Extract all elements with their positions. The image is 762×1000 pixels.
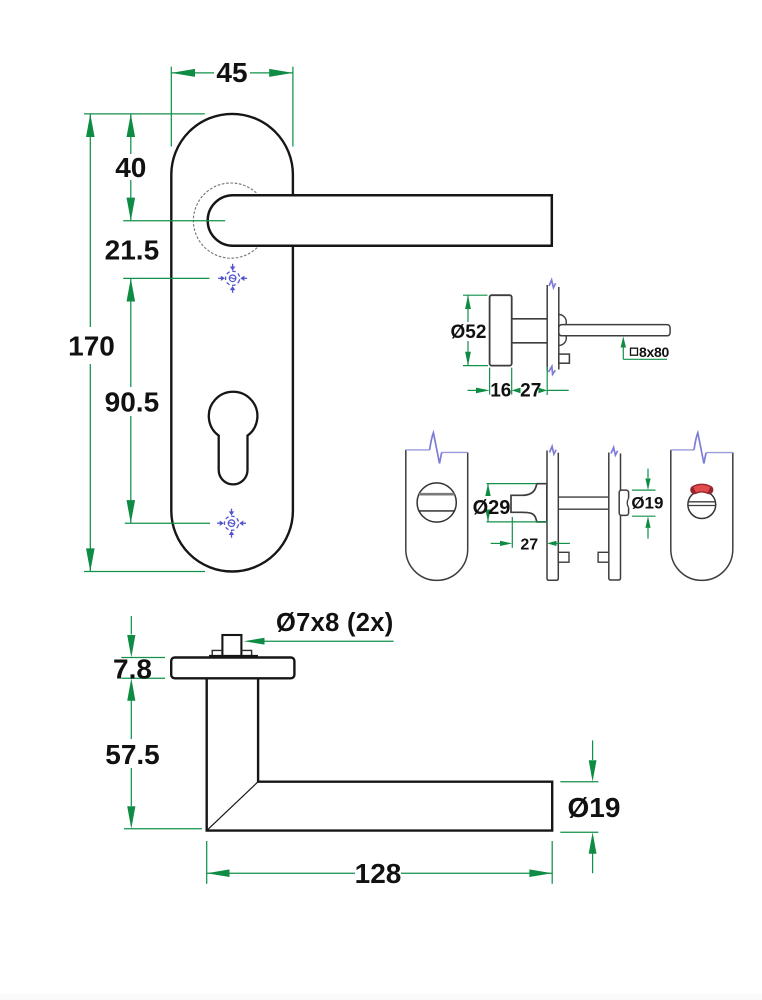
arrowhead Ø29 bottom xyxy=(485,510,490,522)
leader 8x80 vertical xyxy=(622,346,624,359)
dim Ø52 line xyxy=(467,295,469,322)
arrowhead 40 bottom xyxy=(127,198,136,221)
dim 7.8 ext bottom xyxy=(121,677,165,679)
svg-text:45: 45 xyxy=(216,57,247,88)
dim 57.5 line xyxy=(130,700,132,739)
svg-text:16: 16 xyxy=(490,381,511,402)
svg-text:21.5: 21.5 xyxy=(105,235,160,266)
neck top line xyxy=(512,318,548,320)
arrowhead 27 right xyxy=(538,388,547,394)
break mark thumbturn bar xyxy=(550,447,557,455)
left washer step xyxy=(212,650,222,657)
svg-text:57.5: 57.5 xyxy=(105,739,160,770)
dim Ø19 mid tick top xyxy=(632,489,656,491)
break mark left plate xyxy=(430,433,442,464)
svg-text:27: 27 xyxy=(520,536,538,553)
tab left of release bar xyxy=(598,552,609,562)
tab right of thumbturn bar xyxy=(558,552,569,562)
arrowhead Ø29 top xyxy=(485,484,490,496)
dim Ø29 ext bottom xyxy=(487,521,548,523)
lever handle (front view) xyxy=(208,195,552,246)
dim 170 extension bottom xyxy=(84,571,205,573)
wc knob circle xyxy=(688,491,716,519)
neck bottom line xyxy=(512,342,548,344)
knob grip lines xyxy=(688,501,715,503)
dim Ø19 line top xyxy=(592,740,594,760)
arrowhead Ø19 bottom xyxy=(645,516,650,528)
svg-text:128: 128 xyxy=(355,858,402,889)
left plate bottom section xyxy=(406,450,468,580)
bottom view dimensions xyxy=(121,616,598,884)
dim 90.5 line xyxy=(130,278,132,387)
door panel edge bar xyxy=(547,286,559,371)
arrowhead 170 bottom xyxy=(86,548,95,571)
svg-text:170: 170 xyxy=(68,331,115,362)
arrowhead Ø19 bottom top xyxy=(589,760,597,782)
position symbol lower xyxy=(217,509,246,538)
spindle bar xyxy=(559,325,670,336)
dims for side view xyxy=(463,295,667,395)
dim Ø52 ext bottom xyxy=(463,365,488,367)
arrowhead 40 top xyxy=(127,114,136,137)
dim 40 extension (handle axis) xyxy=(123,220,225,222)
rose side rect xyxy=(490,295,512,365)
slot upper chord xyxy=(419,493,455,496)
ext line 16 right xyxy=(511,368,513,395)
middle row dimensions xyxy=(487,469,656,548)
dim 16 tail left xyxy=(468,389,482,391)
plate (backplate 45x170) xyxy=(171,114,293,572)
dim 90.5 extension (lower screw axis) xyxy=(125,522,210,524)
dim 45 line xyxy=(171,72,214,74)
dim 57.5 ext bottom xyxy=(124,828,202,830)
svg-text:Ø19: Ø19 xyxy=(568,792,621,823)
arrowhead Ø19 bottom bottom xyxy=(589,832,597,854)
arrowhead 45 right xyxy=(269,69,293,77)
arrowhead 16 left xyxy=(476,388,490,394)
ext line knob tip xyxy=(511,517,513,548)
svg-text:Ø7x8 (2x): Ø7x8 (2x) xyxy=(276,609,394,637)
screw boss stub xyxy=(222,635,241,658)
break mark top of panel xyxy=(549,280,556,288)
arrowhead 16 right xyxy=(512,388,521,394)
dim Ø19 tick top xyxy=(560,781,598,783)
dim 170 line xyxy=(89,114,91,327)
arrowhead 90.5 top xyxy=(127,278,136,301)
dim Ø19 mid line bottom xyxy=(647,528,649,539)
release side plate bar xyxy=(609,453,621,581)
svg-text:Ø52: Ø52 xyxy=(451,322,487,343)
arrowhead Ø19 top xyxy=(645,478,650,490)
svg-text:Ø19: Ø19 xyxy=(631,494,663,513)
red indicator segment xyxy=(695,488,709,490)
svg-text:27: 27 xyxy=(520,381,541,402)
euro cylinder keyhole xyxy=(209,392,258,485)
arrowhead 170 top xyxy=(86,114,95,137)
svg-text:Ø29: Ø29 xyxy=(473,497,511,519)
arrowhead 90.5 bottom xyxy=(127,500,136,523)
left plate cut edge (blue) xyxy=(406,449,430,451)
thumbturn plate bar xyxy=(547,451,558,581)
svg-text:40: 40 xyxy=(115,152,146,183)
arrowhead Ø7x8 leader xyxy=(244,638,265,645)
slot lower chord xyxy=(419,510,454,512)
label square 8x80 xyxy=(631,348,638,355)
arrowhead 45 left xyxy=(171,69,195,77)
arrowhead Ø52 top xyxy=(465,295,471,309)
arrowhead 7.8 top xyxy=(127,635,135,658)
right plate bottom section xyxy=(671,450,733,581)
dim 128 ext right xyxy=(551,841,553,884)
miter line xyxy=(207,782,258,831)
dim 128 ext left xyxy=(206,841,208,884)
dim Ø19 mid tick bottom xyxy=(632,515,656,517)
leader Ø7x8 line xyxy=(262,640,394,642)
svg-text:8x80: 8x80 xyxy=(639,344,669,360)
dim 27 mid tail right xyxy=(555,542,570,544)
spring bushing bumps xyxy=(559,315,567,346)
emergency release circle xyxy=(417,483,456,522)
release notch xyxy=(627,498,630,507)
ext line 16 left xyxy=(489,368,491,395)
arrowhead 27 mid right xyxy=(547,541,557,546)
lever body xyxy=(207,678,553,831)
thumbturn knob profile xyxy=(511,484,547,522)
right washer step xyxy=(241,650,251,657)
washer base band xyxy=(209,655,258,658)
dim 170 extension top xyxy=(84,113,205,115)
dim Ø29 ext top xyxy=(487,483,537,485)
dim 27 mid tail left xyxy=(491,542,503,544)
arrowhead 27 mid left xyxy=(500,541,512,546)
dim 27 tail right outside xyxy=(547,389,569,391)
dim Ø19 mid line top xyxy=(647,469,649,478)
arrowhead 8x80 xyxy=(621,336,626,347)
ext line 27 right (door face) xyxy=(546,367,548,396)
arrowhead Ø52 bottom xyxy=(465,352,471,366)
svg-text:90.5: 90.5 xyxy=(105,387,160,418)
svg-text:7.8: 7.8 xyxy=(113,654,152,685)
dim 21.5 extension (upper screw axis) xyxy=(123,277,209,279)
dim 7.8 line above xyxy=(130,616,132,635)
fixing tab xyxy=(559,354,570,363)
leader 8x80 horizontal xyxy=(623,358,667,360)
release button side xyxy=(619,490,628,515)
break mark release bar xyxy=(611,448,618,456)
dim Ø19 tick bottom xyxy=(560,831,598,833)
arrowhead 57.5 bottom xyxy=(127,806,135,829)
rose flange xyxy=(171,658,294,679)
dim Ø19 line bottom xyxy=(592,853,594,873)
arrowhead 128 left xyxy=(207,869,230,877)
dim 7.8 ext top xyxy=(121,657,165,659)
break mark bottom of panel xyxy=(548,366,556,375)
faint page bottom edge xyxy=(0,994,762,1000)
dim Ø29 line xyxy=(487,484,489,495)
dim 128 line xyxy=(207,872,355,874)
dim 40 line xyxy=(130,114,132,154)
arrowhead 57.5 top xyxy=(127,678,135,701)
dim 45 extension lines xyxy=(170,67,172,147)
arrowhead 128 right xyxy=(529,869,552,877)
right plate cut edge (blue) xyxy=(671,449,694,451)
dim Ø52 ext top xyxy=(463,294,488,296)
wc spindle lines xyxy=(558,496,609,498)
rose circle (thin) xyxy=(193,183,268,258)
position symbol upper xyxy=(218,264,247,293)
break mark right plate xyxy=(694,433,706,464)
